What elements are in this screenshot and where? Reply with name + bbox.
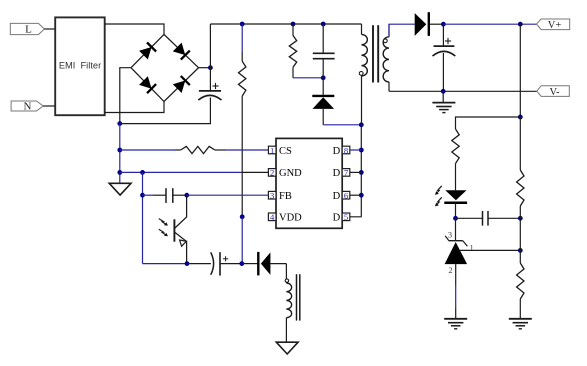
- node startup resistor tap: [240, 22, 245, 27]
- U1 pin 3 box: [268, 191, 276, 199]
- node GND tap: [117, 170, 122, 175]
- op-amp U1 controller body: [276, 138, 342, 228]
- diode D7 output rectifier: [415, 13, 427, 36]
- inductor L1 polarity dot: [285, 279, 288, 282]
- node FB cap left: [140, 193, 145, 198]
- node drain pin6: [359, 193, 364, 198]
- svg-text:2: 2: [270, 168, 274, 178]
- svg-text:V-: V-: [549, 87, 560, 98]
- wire VDD drop to bottom rail: [241, 217, 243, 264]
- capacitor C5 output electrolytic: [442, 24, 444, 46]
- optocoupler LED light arrows: [435, 186, 442, 207]
- shunt regulator U3 TL431: [455, 218, 457, 240]
- wire GND drop to bottom rail: [142, 172, 144, 263]
- wire bottom rail to VDD cap: [187, 263, 211, 265]
- transformer T1 primary polarity dot: [359, 72, 363, 76]
- wire secondary to output diode: [389, 24, 415, 37]
- svg-text:EMI Filter: EMI Filter: [59, 60, 101, 70]
- resistor R3 current sense: [120, 149, 175, 151]
- wire drain bus: [360, 125, 362, 217]
- wire snubber join: [293, 77, 323, 79]
- diode D6 VDD rectifier: [242, 263, 257, 265]
- port V+: [537, 19, 570, 31]
- optocoupler Q1 phototransistor: [174, 195, 186, 263]
- node bridge output: [208, 65, 213, 70]
- node snubber bottom: [321, 75, 326, 80]
- wire EMI L output to bridge top: [105, 24, 164, 34]
- wire V+ rail: [443, 23, 536, 25]
- svg-text:2: 2: [448, 265, 452, 275]
- svg-text:6: 6: [344, 191, 349, 201]
- node snubber R tap: [291, 22, 296, 27]
- wire bridge left corner to DC- drop: [120, 68, 131, 124]
- bridge diode D1 (upper-left): [139, 47, 152, 60]
- bridge rectifier BR1 diamond: [131, 34, 199, 101]
- inductor L1 core: [296, 274, 298, 320]
- node output cap bottom: [441, 89, 446, 94]
- U1 pin 4 box: [268, 213, 276, 221]
- svg-text:D: D: [333, 146, 341, 157]
- wire DC+ riser: [209, 24, 211, 91]
- bridge diode D4 (lower-right): [173, 81, 186, 94]
- wire DC- down-run: [119, 124, 121, 184]
- svg-text:4: 4: [270, 212, 275, 222]
- wire DC- bus to bulk cap: [120, 98, 211, 124]
- wire U3 ref to divider: [460, 249, 520, 251]
- transformer T1 core: [372, 25, 374, 82]
- svg-text:VDD: VDD: [279, 213, 302, 224]
- node VDD rail bottom: [239, 261, 244, 266]
- node DC- junction: [117, 121, 122, 126]
- inductor L1 auxiliary winding: [285, 264, 287, 283]
- svg-text:GND: GND: [279, 168, 302, 179]
- port V-: [537, 86, 570, 98]
- node snubber C tap: [321, 22, 326, 27]
- wire U3 anode to ground: [455, 264, 457, 285]
- node LED cathode: [453, 216, 458, 221]
- optocoupler Q1 light arrows: [159, 219, 168, 237]
- wire EMI N output to bridge bottom: [105, 102, 164, 113]
- earth ground TL431: [444, 318, 467, 320]
- wire pin6 to drain: [350, 194, 362, 196]
- wire L to EMI filter: [44, 28, 55, 30]
- capacitor C3 feedback filter: [143, 194, 154, 196]
- U1 pin 5 box: [342, 213, 350, 221]
- U1 pin 1 box: [268, 146, 276, 154]
- svg-text:3: 3: [448, 230, 452, 240]
- wire bridge right corner to node: [199, 67, 211, 69]
- node divider mid cap: [518, 216, 523, 221]
- transformer T1 primary winding: [361, 24, 363, 34]
- transformer T1 secondary polarity dot: [383, 39, 387, 43]
- svg-text:FB: FB: [279, 191, 292, 202]
- svg-text:L: L: [25, 24, 32, 36]
- resistor R2 snubber: [292, 24, 294, 35]
- node GND cap tap: [140, 170, 145, 175]
- svg-text:D: D: [333, 168, 341, 179]
- bridge diode D2 (upper-right): [173, 43, 186, 56]
- wire N to EMI filter: [43, 105, 55, 107]
- node VDD junction: [240, 214, 245, 219]
- node output cap top: [441, 22, 446, 27]
- resistor R6 divider lower: [519, 218, 521, 263]
- svg-text:N: N: [24, 101, 32, 113]
- diode D5 clamp: [322, 78, 324, 95]
- resistor R1 startup: [241, 24, 243, 51]
- node FB junction: [184, 193, 189, 198]
- svg-text:8: 8: [344, 145, 348, 155]
- capacitor C4 VDD electrolytic: [211, 252, 214, 274]
- svg-text:5: 5: [344, 212, 348, 222]
- wire feedback top run: [456, 117, 521, 129]
- svg-text:V+: V+: [548, 20, 562, 31]
- EMI filter block: [55, 17, 104, 115]
- wire DC+ top rail: [210, 23, 361, 25]
- earth ground divider: [509, 318, 532, 320]
- wire FB to pin3: [187, 194, 269, 196]
- resistor R5 divider upper: [519, 117, 521, 170]
- node drain pin8: [359, 148, 364, 153]
- svg-text:1: 1: [469, 243, 473, 253]
- node feedback top: [518, 115, 523, 120]
- ground auxiliary: [276, 342, 298, 354]
- port L: [10, 23, 44, 35]
- earth ground output: [442, 91, 444, 102]
- wire bottom rail left: [143, 263, 188, 265]
- resistor R4 LED series: [452, 129, 459, 164]
- U1 pin 8 box: [342, 146, 350, 154]
- svg-text:CS: CS: [279, 146, 292, 157]
- wire pin7 to drain: [350, 171, 362, 173]
- bridge diode D3 (lower-left): [139, 76, 152, 89]
- U1 pin 6 box: [342, 191, 350, 199]
- port N: [11, 101, 43, 113]
- svg-text:7: 7: [344, 168, 349, 178]
- wire V- rail: [389, 90, 537, 92]
- node CS tap: [117, 148, 122, 153]
- wire clamp anode to drain node: [323, 124, 361, 126]
- node V+ feedback tap: [518, 22, 523, 27]
- transformer T1 secondary winding: [388, 24, 390, 37]
- capacitor C2 snubber: [322, 24, 324, 53]
- svg-text:D: D: [333, 191, 341, 202]
- capacitor C6 compensation: [456, 217, 483, 219]
- node emitter junction: [185, 261, 190, 266]
- svg-text:1: 1: [270, 145, 274, 155]
- node drain junction: [359, 122, 364, 127]
- wire pin5 to drain: [350, 215, 362, 218]
- wire V+ sense drop: [519, 24, 521, 117]
- svg-text:D: D: [333, 213, 341, 224]
- U1 pin 7 box: [342, 169, 350, 177]
- node divider tap: [518, 248, 523, 253]
- node drain pin7: [359, 170, 364, 175]
- U1 pin 2 box: [268, 169, 276, 177]
- wire pin8 to drain: [350, 149, 362, 151]
- wire GND pin run: [120, 171, 242, 173]
- ground primary: [109, 183, 131, 195]
- optocoupler LED D8: [445, 190, 466, 200]
- svg-text:3: 3: [270, 191, 274, 201]
- capacitor C1 bulk electrolytic: [198, 83, 221, 100]
